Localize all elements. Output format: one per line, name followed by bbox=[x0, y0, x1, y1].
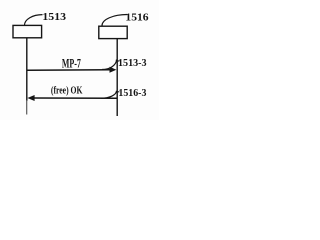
svg-text:MP-7: MP-7 bbox=[62, 57, 81, 71]
callout tail 1516-3 bbox=[117, 91, 120, 93]
lifeline right (below box 1516) bbox=[116, 39, 118, 116]
callout tail 1513-3 bbox=[117, 60, 120, 62]
svg-text:1513-3: 1513-3 bbox=[118, 57, 147, 69]
callout arc for 1513-3 bbox=[102, 60, 117, 70]
lifeline left faded lower segment bbox=[26, 100, 28, 115]
svg-text:1513: 1513 bbox=[42, 11, 66, 23]
box 1516 (right entity box) bbox=[99, 26, 127, 38]
arrowhead MP-7 bbox=[110, 67, 117, 73]
callout arc for 1513 bbox=[25, 15, 43, 26]
callout arc for 1516 bbox=[102, 15, 127, 26]
arrowhead (free) OK bbox=[27, 95, 34, 101]
svg-text:(free) OK: (free) OK bbox=[51, 84, 83, 96]
svg-text:1516-3: 1516-3 bbox=[118, 87, 146, 99]
callout arc for 1516-3 bbox=[101, 91, 117, 98]
message arrow (free) OK (right to left) bbox=[33, 97, 117, 99]
svg-text:1516: 1516 bbox=[125, 12, 149, 24]
lifeline left (below box 1513) bbox=[26, 38, 28, 101]
box 1513 (left entity box) bbox=[13, 25, 42, 37]
message arrow MP-7 (left to right) bbox=[27, 69, 111, 71]
